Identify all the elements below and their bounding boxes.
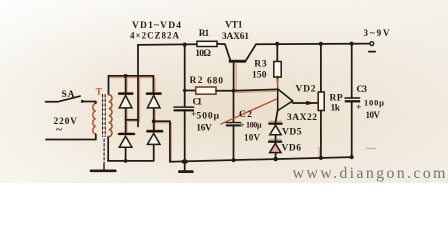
svg-text:C3: C3: [357, 85, 368, 95]
svg-text:150: 150: [252, 70, 267, 80]
svg-text:10V: 10V: [244, 133, 261, 143]
svg-text:3~9V: 3~9V: [364, 28, 391, 38]
svg-text:4×2CZ82A: 4×2CZ82A: [130, 30, 180, 40]
svg-text:R1: R1: [199, 29, 210, 39]
svg-text:500μ: 500μ: [197, 111, 220, 121]
svg-text:100μ: 100μ: [246, 121, 262, 130]
svg-text:VD5: VD5: [282, 128, 302, 138]
svg-text:R3: R3: [254, 59, 267, 69]
svg-text:680: 680: [207, 77, 223, 87]
svg-text:RP: RP: [330, 94, 343, 104]
svg-text:+: +: [356, 103, 361, 113]
svg-text:~: ~: [56, 124, 62, 136]
svg-text:www.diangon.com: www.diangon.com: [293, 165, 447, 182]
svg-text:16V: 16V: [196, 123, 212, 133]
svg-text:VD6: VD6: [282, 144, 302, 154]
svg-text:1k: 1k: [331, 104, 341, 114]
svg-text:10V: 10V: [366, 110, 381, 120]
svg-text:100μ: 100μ: [364, 98, 384, 108]
svg-text:T: T: [96, 88, 103, 98]
svg-text:VD2: VD2: [296, 85, 316, 95]
svg-text:C1: C1: [193, 98, 203, 108]
svg-text:R2: R2: [190, 76, 203, 86]
svg-text:C2: C2: [239, 110, 252, 120]
svg-text:3AX22: 3AX22: [287, 113, 317, 123]
svg-text:3AX61: 3AX61: [222, 32, 249, 42]
svg-text:+: +: [240, 121, 245, 130]
svg-text:10Ω: 10Ω: [195, 49, 211, 59]
svg-text:VT1: VT1: [225, 21, 243, 31]
svg-text:SA: SA: [62, 90, 75, 100]
